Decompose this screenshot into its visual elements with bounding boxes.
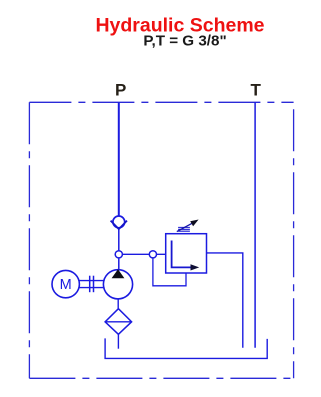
svg-text:M: M xyxy=(60,277,72,293)
relief valve RV1 internal flow arrow xyxy=(172,241,193,268)
node junction 2 xyxy=(149,251,156,258)
motor M1 xyxy=(52,270,79,297)
svg-text:T: T xyxy=(251,80,262,99)
node junction 1 xyxy=(115,251,122,258)
wire pump to filter xyxy=(117,298,119,308)
check valve V1 ball xyxy=(113,216,125,228)
relief valve RV1 body xyxy=(166,234,207,273)
shaft lines xyxy=(79,280,104,282)
pump P1 xyxy=(103,270,132,299)
enclosure border right (dash-dot) xyxy=(293,102,295,378)
wire relief valve outlet to tank xyxy=(207,253,243,348)
enclosure border left (dash-dot) xyxy=(28,102,30,378)
wire relief valve drain loop xyxy=(153,258,186,286)
svg-text:P,T = G 3/8": P,T = G 3/8" xyxy=(143,33,226,50)
wire junction line to relief valve xyxy=(119,253,166,255)
svg-text:P: P xyxy=(115,80,126,99)
wire P vertical (border to check valve) xyxy=(118,102,120,216)
wire check valve to pump xyxy=(118,228,120,270)
tank T1 xyxy=(105,338,267,358)
filter F1 xyxy=(105,309,132,335)
enclosure border top (dash-dot) xyxy=(29,101,293,103)
wire T vertical (border to tank) xyxy=(254,102,256,347)
coupling bars xyxy=(89,276,91,293)
filter F1 element line xyxy=(105,321,132,323)
check valve V1 seat xyxy=(111,221,127,230)
relief valve RV1 adjustment arrow xyxy=(177,223,193,232)
wire filter to tank xyxy=(117,334,119,348)
relief valve RV1 spring xyxy=(178,227,190,231)
pump P1 flow triangle xyxy=(112,269,125,278)
enclosure border bottom (dash-dot) xyxy=(29,377,293,379)
